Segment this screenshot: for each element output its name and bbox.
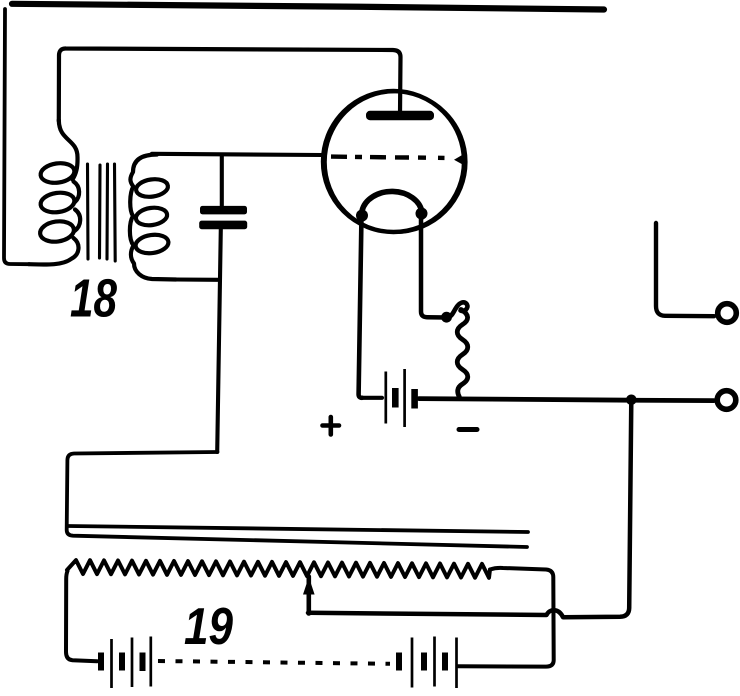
- triode V1 grid (dashed): [331, 157, 445, 158]
- battery B2 (left section of filament battery 19): [101, 637, 151, 689]
- wire: top horizontal rule: [12, 4, 604, 10]
- wire: grid return horizontal and down to lower twin line: [67, 452, 527, 547]
- wire: plate lead (anode to top wire, down left side): [59, 48, 401, 121]
- triode V1 plate (anode bar): [366, 111, 434, 120]
- wire: dashed link between battery sections: [158, 661, 390, 664]
- wire: capacitor top lead: [220, 155, 224, 207]
- wire: upper output lead: [656, 223, 714, 316]
- capacitor C1: [199, 206, 247, 229]
- wire: junction down to wiper bus (with hop over battery lead): [308, 400, 631, 617]
- wire: zigzag right end to bottom battery lead: [458, 568, 554, 667]
- potentiometer 19 resistive element (zigzag): [67, 560, 490, 578]
- wire: plate/output bus to terminal: [419, 399, 714, 401]
- wire: left filament lead: [359, 215, 362, 398]
- svg-text:18: 18: [70, 269, 117, 329]
- potentiometer 19 wiper arrow: [306, 577, 311, 614]
- wire: right filament lead to rheostat: [421, 214, 447, 318]
- wire: capacitor bottom lead / grid return vertical: [217, 229, 221, 452]
- terminal: lower binding post: [717, 391, 736, 410]
- label -: [459, 427, 477, 432]
- transformer T 18 core: [88, 164, 116, 261]
- triode V1 filament arch: [362, 191, 422, 218]
- junction dot: filament/rheostat: [441, 312, 452, 323]
- wire: zigzag left end down to battery: [66, 571, 97, 661]
- wire: filament bus left segment: [361, 396, 382, 400]
- wire: left edge lead to primary bottom: [4, 9, 29, 264]
- label +: [323, 417, 340, 435]
- wire: grid wire (secondary top to triode grid): [152, 154, 322, 155]
- transformer T 18 secondary winding: [130, 155, 176, 280]
- wire: secondary bottom to grid-return node: [176, 277, 218, 281]
- transformer T 18 primary winding: [29, 120, 80, 265]
- battery B1 (plate supply): [386, 369, 415, 427]
- terminal: upper binding post: [718, 304, 737, 323]
- svg-text:19: 19: [184, 598, 233, 656]
- rheostat R1 (filament rheostat): [448, 302, 468, 317]
- junction dot: output bus / wiper branch: [626, 395, 637, 406]
- triode V1 envelope: [323, 91, 464, 232]
- battery B3 (right section of filament battery 19): [399, 637, 457, 689]
- wire: twin line upper: [68, 526, 528, 532]
